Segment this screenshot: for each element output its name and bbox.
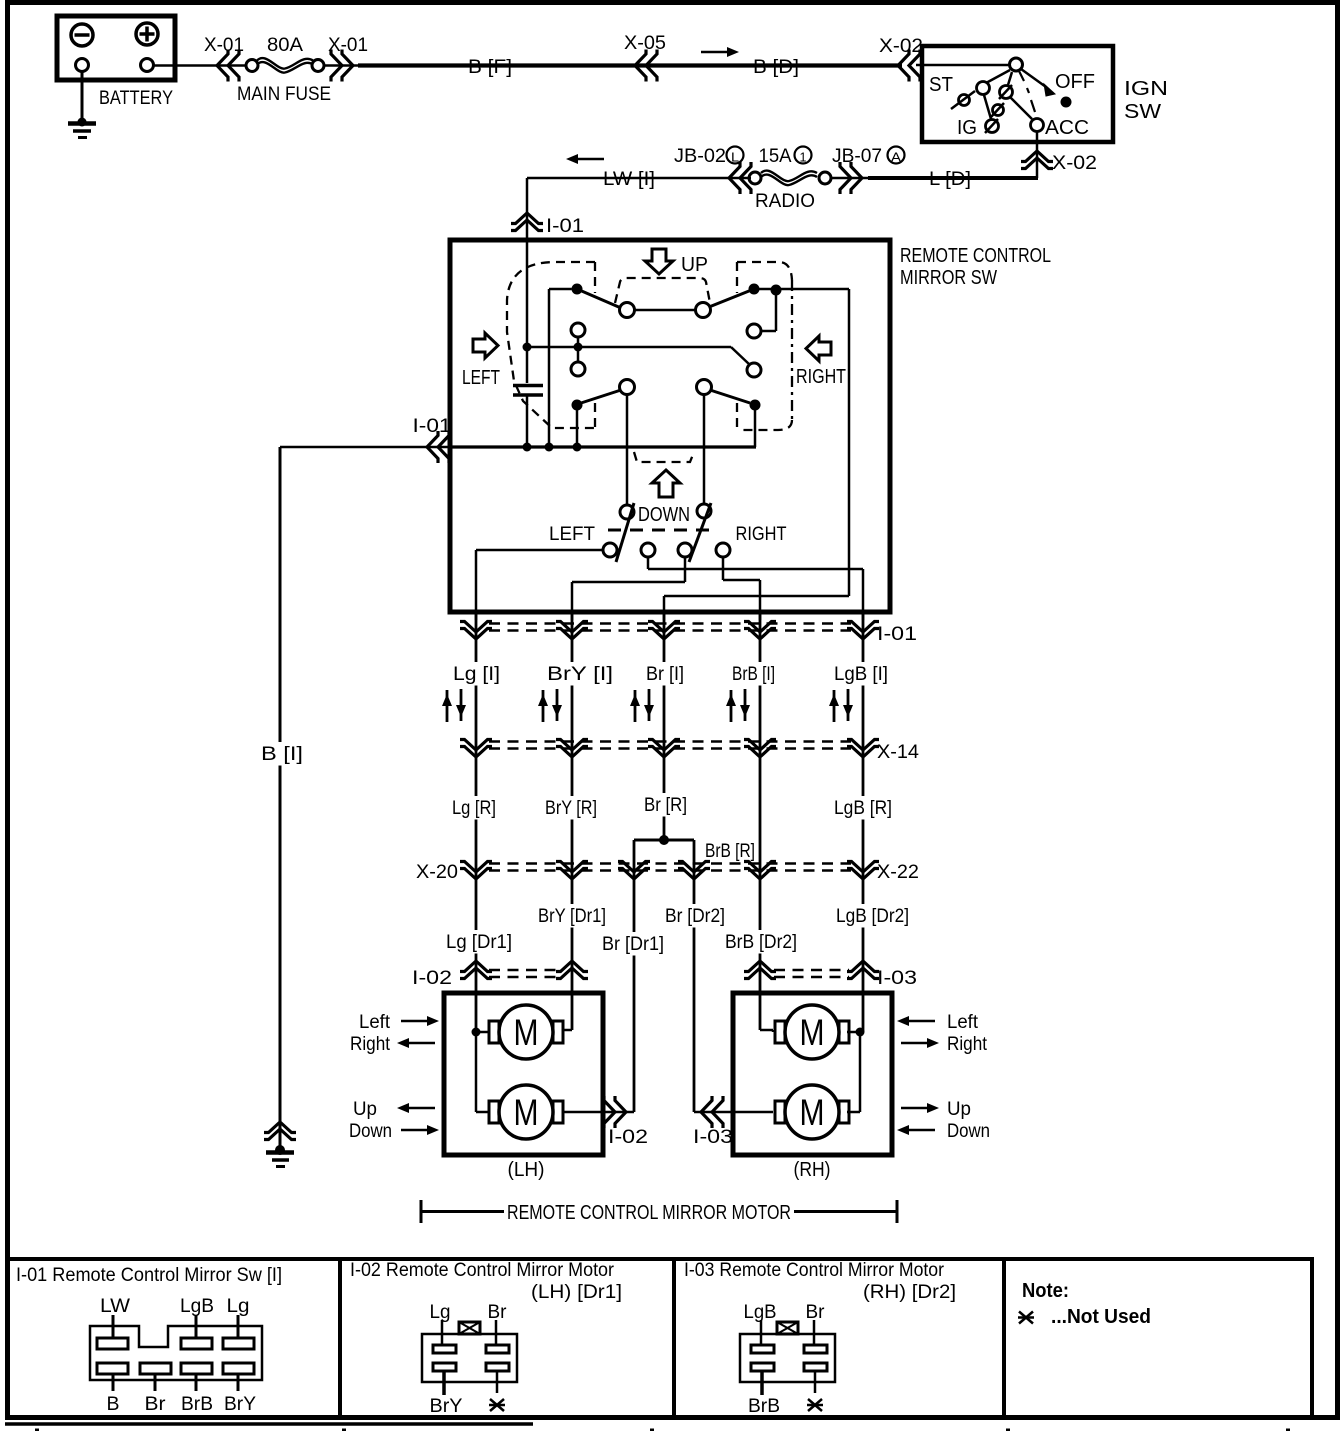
connector X-01 (right half)	[331, 50, 353, 82]
svg-text:BrB [I]: BrB [I]	[732, 664, 775, 685]
arrow Down in	[401, 1125, 439, 1135]
wire LgB (5)	[862, 612, 865, 1032]
dash-dot arm to ACC	[1019, 71, 1035, 112]
svg-text:I-02 Remote Control Mirror: I-02 Remote Control Mirror Motor	[350, 1259, 614, 1281]
svg-text:L [D]: L [D]	[929, 169, 971, 190]
svg-text:X-01: X-01	[328, 35, 368, 56]
contact	[747, 363, 761, 377]
wire label Lg [Dr1]	[444, 930, 515, 954]
svg-text:Br [I]: Br [I]	[646, 664, 684, 685]
svg-text:BrB: BrB	[748, 1395, 780, 1417]
contact IG	[986, 120, 999, 133]
keyway box	[777, 1322, 798, 1334]
dashed selector bar	[608, 529, 712, 532]
svg-text:I-03: I-03	[877, 968, 917, 989]
svg-text:Left: Left	[947, 1012, 979, 1033]
svg-text:RIGHT: RIGHT	[796, 366, 846, 388]
selector blade left	[616, 503, 634, 562]
circled L	[727, 147, 744, 164]
svg-text:I-01: I-01	[877, 624, 917, 645]
wire BrY (2)	[571, 612, 574, 1030]
wire label BrB [Dr2]	[723, 930, 800, 954]
wire rocker to right bus	[754, 288, 849, 291]
svg-text:Lg: Lg	[430, 1301, 451, 1323]
connector row I-02	[489, 969, 558, 972]
connector I-01 (left)	[427, 431, 449, 463]
wire label Lg [R]	[450, 796, 499, 820]
connector X-05	[635, 50, 657, 82]
svg-text:Br: Br	[145, 1393, 167, 1415]
wire label Br [R]	[642, 793, 690, 817]
svg-text:Br [Dr1]: Br [Dr1]	[602, 934, 664, 955]
svg-text:BrY [Dr1]: BrY [Dr1]	[538, 906, 606, 927]
RH internal wiring	[856, 1028, 865, 1037]
keyway box	[459, 1322, 480, 1334]
svg-text:...Not Used: ...Not Used	[1051, 1306, 1151, 1328]
wire battery+ to X-01 fuse	[154, 64, 247, 67]
current direction arrow	[701, 47, 739, 57]
svg-text:ACC: ACC	[1045, 117, 1089, 139]
svg-text:LgB [Dr2]: LgB [Dr2]	[836, 906, 909, 927]
svg-text:I-02: I-02	[608, 1127, 648, 1148]
svg-text:Br: Br	[806, 1301, 825, 1323]
dashed knob outline right lobe	[737, 262, 792, 280]
svg-text:B: B	[107, 1393, 120, 1415]
wire label B [I]	[259, 742, 306, 766]
selector pivot left	[620, 505, 634, 519]
svg-text:Left: Left	[359, 1012, 391, 1033]
svg-text:BrB: BrB	[181, 1393, 213, 1415]
svg-text:I-03 Remote Control Mirror: I-03 Remote Control Mirror Motor	[684, 1259, 944, 1281]
arrow Right out	[397, 1038, 435, 1048]
svg-text:80A: 80A	[267, 35, 303, 56]
svg-text:MIRROR SW: MIRROR SW	[900, 267, 997, 289]
contact	[747, 324, 761, 338]
OFF arrowhead and dot	[1044, 84, 1055, 96]
UP hollow arrow	[645, 249, 673, 274]
wire label LgB [R]	[832, 796, 895, 820]
svg-text:BrB [Dr2]: BrB [Dr2]	[725, 932, 797, 953]
unused contact near ST	[959, 95, 970, 106]
svg-text:Lg [R]: Lg [R]	[452, 798, 496, 819]
connector I-02 (inline)	[604, 1096, 626, 1128]
svg-text:Lg [I]: Lg [I]	[453, 664, 500, 685]
connector I-03 (inline)	[701, 1096, 723, 1128]
direction arrow up	[442, 690, 452, 722]
wire label LgB [Dr2]	[834, 904, 912, 928]
direction arrow down	[456, 689, 466, 721]
svg-text:Right: Right	[350, 1034, 391, 1055]
bottom bus wire	[449, 445, 756, 448]
wire label Br [Dr1]	[600, 932, 667, 956]
connector I-01 (top)	[511, 213, 543, 231]
svg-text:L: L	[731, 150, 739, 165]
wire label Br [I]	[644, 662, 687, 686]
svg-text:Down: Down	[947, 1121, 990, 1142]
svg-text:I-01 Remote Control Mirror: I-01 Remote Control Mirror Sw [I]	[16, 1264, 282, 1286]
sliding contact bars	[513, 384, 543, 388]
arrow Up out (RH)	[901, 1103, 939, 1113]
svg-text:JB-02: JB-02	[674, 146, 726, 167]
svg-text:X-02: X-02	[879, 36, 923, 57]
svg-text:BATTERY: BATTERY	[99, 87, 173, 109]
legend connector I-01	[90, 1326, 262, 1380]
wire L [D]	[868, 176, 1038, 180]
svg-text:1: 1	[800, 150, 807, 165]
contact B to wire 5	[647, 557, 650, 569]
motor M (LH left/right)	[489, 1005, 563, 1059]
left bus wire	[548, 289, 551, 449]
partial double bottom border	[5, 1422, 533, 1426]
contact arm 2	[1008, 72, 1012, 85]
wire M2 to I-03	[694, 1111, 773, 1114]
dashed outline up hat	[615, 278, 710, 303]
battery B+	[57, 16, 175, 80]
svg-text:IG: IG	[957, 117, 977, 139]
svg-text:Up: Up	[947, 1099, 971, 1120]
remote control mirror motor LH box	[444, 993, 603, 1155]
svg-text:Lg [Dr1]: Lg [Dr1]	[446, 932, 512, 953]
ground (battery)	[81, 72, 84, 123]
not used pin	[807, 1399, 823, 1411]
connector row I-03	[774, 969, 849, 972]
svg-text:JB-07: JB-07	[832, 146, 882, 167]
svg-text:(RH): (RH)	[794, 1159, 831, 1181]
svg-text:Up: Up	[353, 1099, 377, 1120]
svg-text:I-01: I-01	[413, 416, 452, 437]
svg-text:UP: UP	[681, 254, 708, 276]
svg-text:REMOTE CONTROL MIRROR MOTOR: REMOTE CONTROL MIRROR MOTOR	[507, 1202, 791, 1224]
svg-text:REMOTE CONTROL: REMOTE CONTROL	[900, 245, 1051, 267]
direction arrow up	[726, 690, 736, 722]
svg-text:LEFT: LEFT	[549, 523, 595, 545]
direction arrow up	[829, 690, 839, 722]
svg-text:A: A	[891, 150, 901, 165]
contact ACC	[1031, 119, 1044, 132]
svg-text:BrY: BrY	[430, 1395, 463, 1417]
svg-text:I-02: I-02	[412, 968, 452, 989]
motor M (RH up/down)	[775, 1085, 849, 1139]
contact	[571, 362, 585, 376]
arm toward OFF	[1021, 69, 1046, 87]
connector X-01 (left half)	[217, 50, 239, 82]
right bus to wire 3	[664, 595, 849, 598]
wire Br (3)	[663, 612, 666, 840]
ground (B[I])	[275, 1145, 285, 1155]
small unused contact	[993, 105, 1004, 116]
svg-text:DOWN: DOWN	[638, 504, 690, 526]
contact arm to ST	[986, 70, 1010, 83]
wire rocker to left bus	[549, 288, 572, 291]
dashed knob outline left lobe	[507, 262, 595, 428]
svg-text:LgB: LgB	[744, 1301, 777, 1323]
connector row X-20 / X-22	[489, 862, 851, 865]
motor M (LH up/down)	[489, 1085, 563, 1139]
wire to left selector pivot	[626, 394, 629, 505]
contact C to wire 2	[684, 557, 687, 582]
LEFT hollow arrow	[473, 333, 498, 358]
connector X-02 (top)	[898, 50, 920, 82]
svg-text:RIGHT: RIGHT	[736, 523, 787, 545]
selector contacts	[603, 543, 617, 557]
IGN SW pivot	[1010, 58, 1023, 71]
selector pivot right	[697, 504, 711, 518]
svg-text:Br: Br	[488, 1301, 507, 1323]
wire label BrB [I]	[730, 662, 778, 686]
svg-text:X-01: X-01	[204, 35, 244, 56]
LH internal wiring	[472, 1028, 481, 1037]
wire label Lg [I]	[451, 662, 503, 686]
lower rocker	[620, 380, 635, 395]
circled A	[888, 147, 905, 164]
ignition switch IGN SW	[922, 46, 1113, 142]
connector X-02 (bottom)	[1021, 151, 1053, 169]
arrow Up out	[397, 1103, 435, 1113]
svg-text:BrY: BrY	[224, 1393, 256, 1415]
arrow Down in (RH)	[897, 1125, 935, 1135]
svg-text:LW: LW	[100, 1295, 131, 1317]
svg-text:MAIN FUSE: MAIN FUSE	[237, 83, 331, 105]
svg-text:I-01: I-01	[546, 216, 584, 237]
junction Br [R] split	[659, 835, 669, 845]
wire B[F]/B[D] main feed	[358, 63, 902, 67]
common horizontal wire	[527, 346, 731, 349]
svg-text:Note:: Note:	[1022, 1280, 1069, 1302]
svg-text:OFF: OFF	[1055, 71, 1095, 93]
diagonal to right contact	[731, 347, 750, 365]
link ST to IG	[984, 95, 991, 119]
svg-text:Down: Down	[349, 1121, 392, 1142]
svg-text:B [I]: B [I]	[261, 744, 303, 765]
direction arrow down	[644, 689, 654, 721]
DOWN hollow arrow	[652, 470, 680, 497]
contact D to wire 4	[722, 557, 725, 580]
svg-text:B [F]: B [F]	[468, 57, 512, 78]
contact with slash	[1000, 86, 1013, 99]
wire label BrY [Dr1]	[536, 904, 609, 928]
svg-text:BrY [R]: BrY [R]	[545, 798, 597, 819]
connector (B[I] bottom)	[264, 1122, 296, 1140]
svg-text:LW [I]: LW [I]	[603, 169, 655, 190]
motor M (RH left/right)	[775, 1005, 849, 1059]
wire B [I]	[279, 447, 282, 1147]
wire I-01 feed inside switch	[526, 240, 529, 383]
svg-text:BrY [I]: BrY [I]	[547, 664, 613, 685]
wire label LgB [I]	[832, 662, 891, 686]
dashed outline down hat	[634, 452, 694, 462]
wire label BrY [I]	[545, 662, 616, 686]
wire label Br [Dr2]	[663, 904, 728, 928]
arrow Left in	[401, 1016, 439, 1026]
current direction arrow left	[566, 154, 604, 164]
wire Lg (1)	[475, 612, 478, 1032]
svg-text:LEFT: LEFT	[462, 367, 500, 389]
svg-text:X-02: X-02	[1052, 153, 1097, 174]
svg-text:(LH) [Dr1]: (LH) [Dr1]	[531, 1281, 622, 1303]
connector row I-01	[489, 622, 851, 625]
svg-text:X-14: X-14	[877, 742, 919, 763]
wire into ignition switch	[916, 64, 1010, 67]
svg-text:(LH): (LH)	[508, 1159, 545, 1181]
svg-text:LgB: LgB	[180, 1295, 214, 1317]
svg-text:Br [R]: Br [R]	[644, 795, 687, 816]
selector blade right	[689, 503, 711, 562]
legend connector I-02	[422, 1334, 517, 1382]
contact	[571, 323, 585, 337]
svg-text:Right: Right	[947, 1034, 988, 1055]
fuse RADIO 15A	[819, 172, 831, 184]
connector JB-02	[729, 162, 751, 194]
arrow Right out (RH)	[901, 1038, 939, 1048]
wire label BrY [R]	[543, 796, 600, 820]
wire I-01 left branch	[280, 446, 450, 449]
wire down to mirror switch	[526, 178, 529, 240]
svg-text:X-22: X-22	[877, 862, 919, 883]
right bus wire down	[848, 289, 851, 596]
RIGHT hollow arrow	[806, 336, 831, 361]
svg-text:RADIO: RADIO	[755, 190, 815, 212]
wire Br [Dr1]	[633, 840, 636, 1112]
direction arrow down	[843, 689, 853, 721]
remote control mirror switch box	[450, 240, 890, 612]
bracket REMOTE CONTROL MIRROR MOTOR	[420, 1200, 423, 1223]
svg-text:X-05: X-05	[624, 33, 666, 54]
legend connector I-03	[740, 1334, 835, 1382]
contact A to wire 1	[476, 549, 603, 552]
svg-text:Lg: Lg	[227, 1295, 250, 1317]
fuse MAIN FUSE 80A	[246, 60, 258, 72]
svg-text:15A: 15A	[759, 146, 792, 167]
cropped next-section marks	[35, 1429, 39, 1432]
circled 1	[795, 147, 812, 164]
wire LW [I]	[527, 177, 751, 180]
svg-text:I-03: I-03	[693, 1127, 733, 1148]
upper rocker	[572, 284, 583, 295]
wire to right selector pivot	[703, 394, 706, 504]
svg-text:SW: SW	[1124, 101, 1161, 123]
connector row X-14	[489, 740, 851, 743]
contact ST	[977, 82, 990, 95]
wire BrB (4)	[759, 612, 762, 1030]
not used pin	[489, 1399, 505, 1411]
svg-text:X-20: X-20	[416, 862, 458, 883]
svg-text:BrB [R]: BrB [R]	[705, 841, 755, 862]
svg-text:IGN: IGN	[1124, 78, 1168, 100]
direction arrow down	[552, 689, 562, 721]
svg-text:LgB [I]: LgB [I]	[834, 664, 888, 685]
legend box	[8, 1257, 1314, 1261]
svg-text:ST: ST	[929, 74, 953, 96]
not used symbol (note)	[1018, 1312, 1034, 1324]
remote control mirror motor RH box	[733, 993, 892, 1155]
wire to common bus	[526, 396, 529, 449]
svg-text:LgB [R]: LgB [R]	[834, 798, 892, 819]
arrow Left in (RH)	[897, 1016, 935, 1026]
wire M2 to I-02	[563, 1111, 634, 1114]
direction arrow up	[538, 690, 548, 722]
direction arrow up	[630, 690, 640, 722]
direction arrow down	[740, 689, 750, 721]
svg-text:(RH) [Dr2]: (RH) [Dr2]	[863, 1281, 956, 1303]
connector JB-07	[840, 162, 862, 194]
arm to ACC	[1010, 97, 1032, 119]
wire Br [Dr2]	[693, 840, 696, 1112]
wire ACC to X-02	[1036, 133, 1039, 179]
svg-text:Br [Dr2]: Br [Dr2]	[665, 906, 725, 927]
svg-text:B [D]: B [D]	[753, 57, 799, 78]
